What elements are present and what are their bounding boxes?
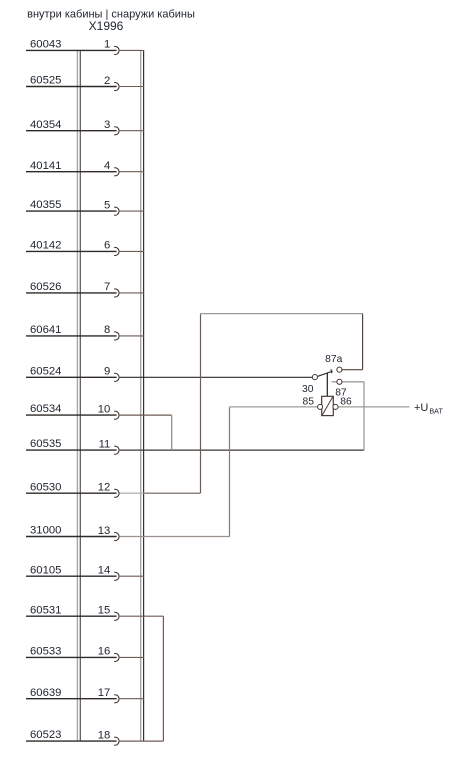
- relay terminal 85: [318, 404, 323, 409]
- svg-text:40354: 40354: [30, 119, 61, 131]
- relay coil K1: [322, 396, 334, 415]
- wire 60533 to pin 16 of X1996: [26, 646, 144, 662]
- svg-text:60531: 60531: [30, 604, 61, 616]
- wire 60105 to pin 14 of X1996: [26, 564, 144, 580]
- svg-text:40355: 40355: [30, 199, 61, 211]
- svg-text:60523: 60523: [30, 729, 61, 741]
- svg-text:5: 5: [104, 199, 110, 211]
- relay contact arm (30 common): [318, 369, 333, 376]
- net label +UBAT: [414, 402, 443, 416]
- wire: pins 15-18 jumper: [162, 616, 164, 741]
- svg-text:X1996: X1996: [89, 19, 124, 33]
- svg-text:6: 6: [104, 240, 110, 252]
- connector X1996 body: right boundary lines: [141, 50, 144, 741]
- svg-text:11: 11: [99, 438, 111, 450]
- wire 60534 to pin 10 of X1996: [26, 403, 172, 419]
- wire 40355 to pin 5 of X1996: [26, 199, 144, 215]
- svg-text:86: 86: [340, 396, 352, 407]
- svg-text:60043: 60043: [30, 39, 61, 51]
- wire 31000 to pin 13 of X1996: [26, 525, 230, 541]
- wire: 87 drop to pin11 line: [363, 382, 365, 451]
- wire 60525 to pin 2 of X1996: [26, 75, 144, 91]
- wire 40142 to pin 6 of X1996: [26, 240, 144, 256]
- wire: coil 86 to +UBAT: [338, 406, 409, 408]
- svg-text:60533: 60533: [30, 646, 61, 658]
- svg-text:4: 4: [104, 160, 110, 172]
- svg-text:16: 16: [98, 646, 111, 658]
- wire 60526 to pin 7 of X1996: [26, 281, 144, 297]
- relay terminal 87a: [337, 367, 342, 372]
- svg-text:31000: 31000: [30, 525, 61, 537]
- svg-text:60524: 60524: [30, 365, 61, 377]
- svg-text:10: 10: [98, 403, 111, 415]
- wire: coil 85 feed horizontal: [230, 406, 318, 408]
- wire: loop right drop to 87a terminal: [362, 314, 364, 370]
- svg-text:8: 8: [104, 324, 110, 336]
- svg-text:12: 12: [98, 482, 111, 494]
- relay terminal 86: [333, 404, 338, 409]
- svg-text:BAT: BAT: [429, 406, 443, 415]
- svg-text:17: 17: [98, 687, 111, 699]
- wire 40141 to pin 4 of X1996: [26, 160, 144, 176]
- wire 60641 to pin 8 of X1996: [26, 324, 144, 340]
- wire 40354 to pin 3 of X1996: [26, 119, 144, 135]
- svg-text:2: 2: [104, 75, 110, 87]
- svg-text:3: 3: [104, 119, 110, 131]
- connector X1996 body: left boundary lines: [77, 50, 80, 741]
- svg-text:40142: 40142: [30, 240, 61, 252]
- wire: relay 87 stub: [332, 381, 364, 383]
- relay armature link: [326, 373, 328, 397]
- svg-text:60105: 60105: [30, 564, 61, 576]
- wire 60535 to pin 11 of X1996: [26, 438, 364, 454]
- wire 60639 to pin 17 of X1996: [26, 687, 144, 703]
- wire 60530 to pin 12 of X1996: [26, 481, 201, 497]
- svg-text:60526: 60526: [30, 281, 61, 293]
- wire: pin12 riser to top loop: [200, 314, 202, 494]
- svg-text:30: 30: [302, 384, 314, 395]
- svg-text:7: 7: [104, 281, 110, 293]
- svg-text:60639: 60639: [30, 687, 61, 699]
- svg-text:14: 14: [98, 565, 111, 577]
- svg-text:60525: 60525: [30, 75, 61, 87]
- wire 60524 to pin 9 of X1996: [26, 365, 312, 381]
- svg-text:85: 85: [303, 396, 315, 407]
- wire: 87a terminal stub: [339, 369, 362, 371]
- relay terminal 87: [337, 379, 342, 384]
- svg-text:9: 9: [104, 366, 110, 378]
- wire: top loop horizontal to relay 87a: [201, 313, 363, 315]
- svg-text:+U: +U: [414, 402, 428, 414]
- svg-text:60530: 60530: [30, 481, 61, 493]
- svg-text:13: 13: [98, 525, 111, 537]
- svg-text:1: 1: [104, 39, 110, 51]
- svg-text:40141: 40141: [30, 160, 61, 172]
- svg-text:60535: 60535: [30, 438, 61, 450]
- relay terminal 30: [312, 375, 317, 380]
- wire 60523 to pin 18 of X1996: [26, 729, 163, 745]
- wire 60531 to pin 15 of X1996: [26, 604, 163, 620]
- svg-text:60534: 60534: [30, 403, 61, 415]
- svg-text:15: 15: [98, 605, 111, 617]
- svg-text:60641: 60641: [30, 324, 61, 336]
- svg-text:18: 18: [98, 729, 111, 741]
- wire: pin10 drop to pin11 line: [171, 415, 173, 450]
- wire: pin13 riser to relay coil 85: [229, 407, 231, 537]
- svg-text:87a: 87a: [325, 354, 342, 365]
- wire 60043 to pin 1 of X1996: [26, 39, 144, 55]
